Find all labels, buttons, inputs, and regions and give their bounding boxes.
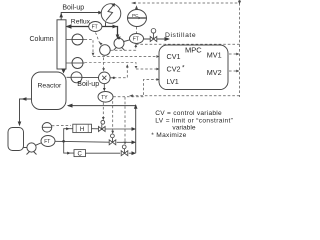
svg-text:FT: FT bbox=[133, 37, 139, 43]
svg-text:Column: Column bbox=[30, 36, 54, 43]
svg-text:variable: variable bbox=[172, 125, 195, 132]
svg-text:LV1: LV1 bbox=[167, 77, 179, 86]
svg-text:FT: FT bbox=[92, 25, 98, 31]
svg-text:Distillate: Distillate bbox=[165, 32, 196, 39]
svg-text:* Maximize: * Maximize bbox=[151, 132, 186, 139]
svg-text:MV2: MV2 bbox=[207, 68, 222, 77]
svg-text:Boil-up: Boil-up bbox=[62, 4, 84, 11]
svg-text:FT: FT bbox=[44, 139, 50, 145]
svg-text:MV1: MV1 bbox=[207, 51, 222, 60]
svg-text:C: C bbox=[78, 151, 83, 157]
svg-text:Reactor: Reactor bbox=[38, 83, 63, 90]
svg-text:LV = limit or “constraint”: LV = limit or “constraint” bbox=[155, 117, 233, 124]
svg-text:Boil-up: Boil-up bbox=[77, 81, 99, 88]
svg-text:CV = control variable: CV = control variable bbox=[155, 110, 222, 117]
svg-text:H: H bbox=[80, 126, 84, 133]
svg-text:Reflux: Reflux bbox=[71, 18, 91, 25]
svg-text:PC: PC bbox=[132, 13, 139, 18]
svg-text:TY: TY bbox=[101, 95, 108, 101]
svg-text:CV1: CV1 bbox=[167, 52, 181, 61]
svg-text:CV2: CV2 bbox=[167, 64, 181, 73]
svg-text:MPC: MPC bbox=[185, 45, 202, 54]
